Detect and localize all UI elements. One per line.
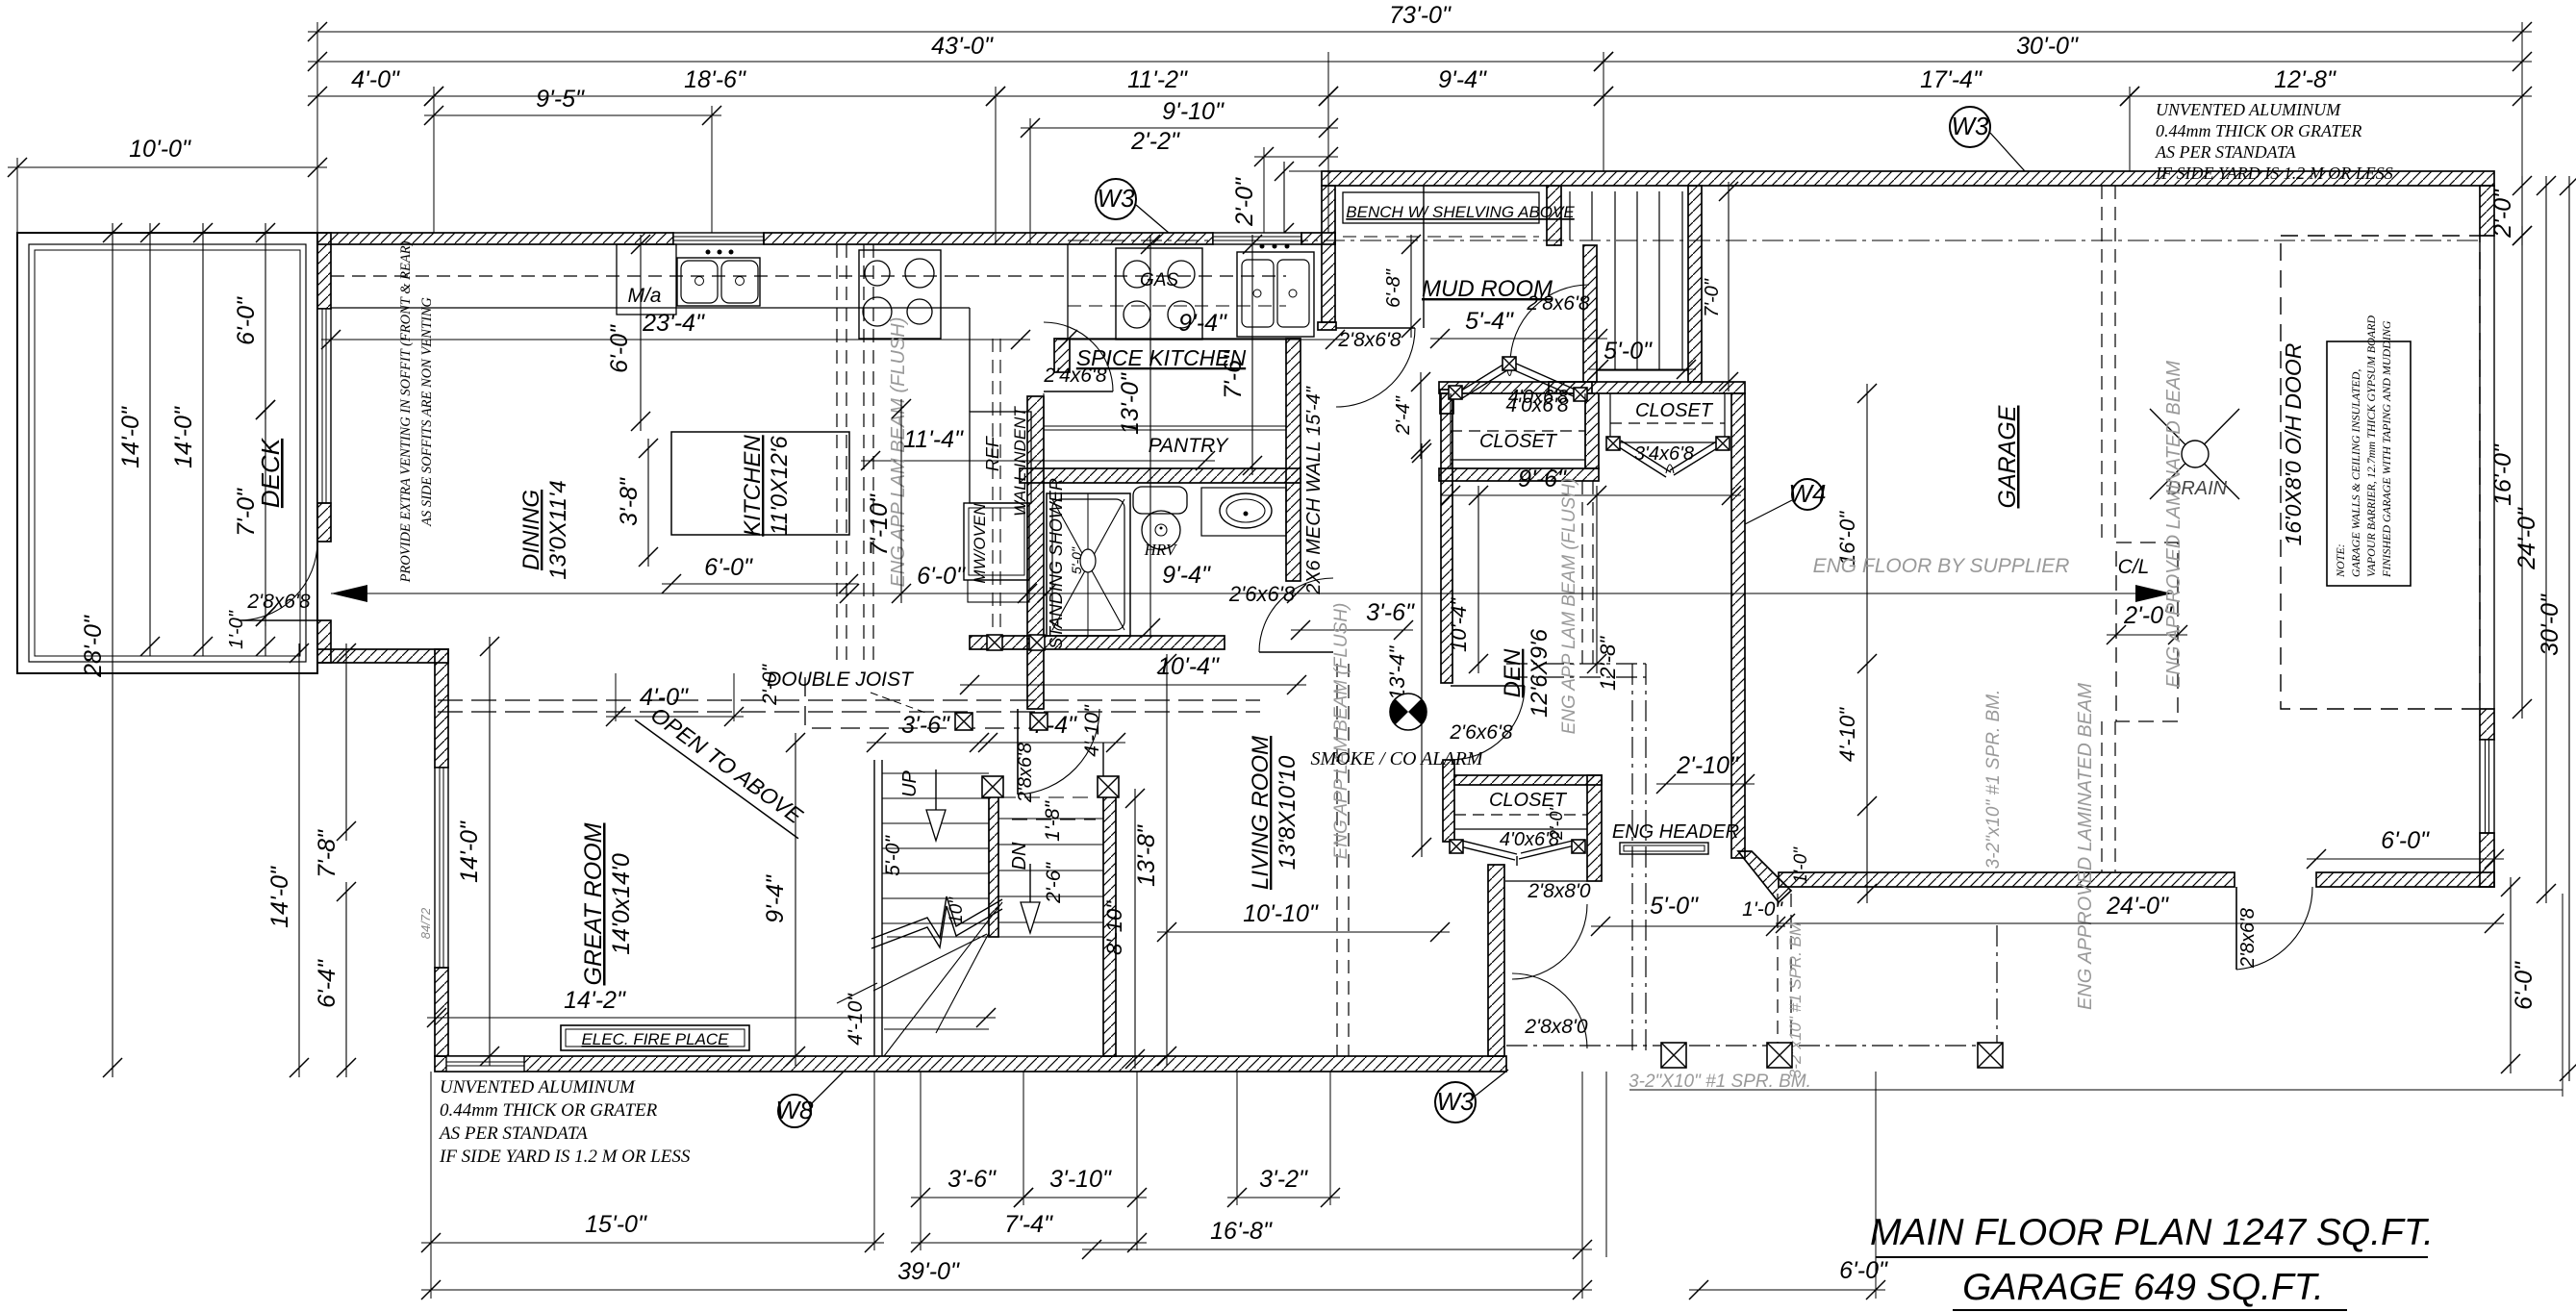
dim 4'-4" stair top bbox=[978, 712, 1125, 752]
svg-text:M/a: M/a bbox=[627, 285, 661, 307]
svg-text:2'-10": 2'-10" bbox=[1676, 752, 1739, 779]
W3 top right bbox=[1950, 107, 1990, 147]
dim 9'-5" bbox=[424, 86, 721, 125]
svg-text:2X6 MECH WALL 15'-4": 2X6 MECH WALL 15'-4" bbox=[1303, 386, 1325, 595]
hrv bbox=[1142, 511, 1180, 549]
svg-text:2'8x8'0: 2'8x8'0 bbox=[1524, 1016, 1588, 1038]
dim 13'-0" dining bbox=[1117, 235, 1160, 638]
dim 6'-0" bottom bbox=[1689, 1257, 1888, 1299]
svg-text:W3: W3 bbox=[1098, 184, 1136, 213]
svg-text:ENG APPROVED LAMINATED BEAM: ENG APPROVED LAMINATED BEAM bbox=[2075, 683, 2096, 1010]
dim 7'-10" bbox=[866, 399, 911, 603]
W4 circle bbox=[1789, 479, 1827, 510]
beam dashed hall bbox=[1337, 664, 1349, 1056]
door garage rear bbox=[2236, 887, 2312, 970]
svg-text:9'-4": 9'-4" bbox=[1438, 66, 1487, 93]
svg-text:CLOSET: CLOSET bbox=[1479, 431, 1558, 452]
door spice 2'4x6'8 bbox=[1044, 322, 1113, 391]
dim 14'-0" great room interior bbox=[456, 637, 499, 1066]
dim 9'-10" bbox=[1021, 98, 1338, 138]
window spice kitchen bbox=[1213, 233, 1301, 244]
wall garage right a bbox=[2480, 709, 2494, 740]
fireplace bbox=[561, 1025, 749, 1050]
beam dashdot line bbox=[1068, 240, 2480, 241]
dim 2'-0" right top bbox=[2489, 176, 2532, 245]
dim 11'-2" bbox=[986, 66, 1338, 106]
svg-text:14'-0": 14'-0" bbox=[266, 866, 293, 928]
svg-text:13'8X10'10: 13'8X10'10 bbox=[1275, 755, 1301, 870]
svg-text:SMOKE / CO ALARM: SMOKE / CO ALARM bbox=[1310, 748, 1483, 770]
svg-text:6'-0": 6'-0" bbox=[606, 324, 633, 373]
W8 bottom bbox=[776, 1095, 815, 1127]
svg-text:9'-5": 9'-5" bbox=[536, 86, 585, 113]
kitchen stove bbox=[859, 250, 941, 339]
svg-text:6'-0": 6'-0" bbox=[704, 554, 753, 581]
door hall bottom 2'8x8'0 bbox=[1512, 973, 1587, 1048]
svg-text:MAIN FLOOR PLAN 1247 SQ.FT.: MAIN FLOOR PLAN 1247 SQ.FT. bbox=[1870, 1212, 2434, 1253]
svg-text:CLOSET: CLOSET bbox=[1635, 400, 1714, 421]
svg-text:23'-4": 23'-4" bbox=[642, 310, 705, 337]
dim 16'-8" bottom bbox=[1082, 1218, 1592, 1259]
bench bbox=[1343, 192, 1539, 223]
door den 2'6x6'8 bbox=[1451, 686, 1525, 760]
dishwasher M/a bbox=[617, 244, 676, 315]
stair right wall bbox=[1103, 781, 1116, 1056]
svg-text:W3: W3 bbox=[1437, 1087, 1476, 1116]
wall hall below bath bbox=[1027, 639, 1044, 709]
porch dashed outline bbox=[1506, 925, 2001, 1046]
dim 3'-2" bottom bbox=[1227, 1166, 1340, 1207]
svg-text:FINISHED GARAGE WITH TAPING AN: FINISHED GARAGE WITH TAPING AND MUDDING bbox=[2380, 320, 2393, 578]
svg-text:7'-10": 7'-10" bbox=[866, 493, 893, 556]
deck outer rect bbox=[17, 233, 317, 673]
svg-text:2'-4": 2'-4" bbox=[1393, 395, 1414, 436]
svg-text:14'-0": 14'-0" bbox=[170, 406, 197, 468]
dim 2'-2" bbox=[1130, 128, 1338, 166]
dim 4'-0" bbox=[308, 66, 443, 106]
svg-text:ENG APP LAM BEAM (FLUSH): ENG APP LAM BEAM (FLUSH) bbox=[1331, 603, 1351, 860]
svg-text:GREAT ROOM: GREAT ROOM bbox=[580, 822, 607, 985]
svg-text:2'-0": 2'-0" bbox=[1231, 177, 1258, 227]
dim 13'-8" bbox=[1133, 654, 1176, 1066]
svg-text:DECK: DECK bbox=[256, 437, 285, 508]
svg-text:16'-0": 16'-0" bbox=[2489, 443, 2516, 506]
partition mudroom left bbox=[1423, 186, 1425, 328]
window kitchen sink bbox=[673, 233, 764, 244]
wall stair/mudroom bbox=[1547, 186, 1561, 245]
svg-text:5'-0": 5'-0" bbox=[1069, 546, 1084, 574]
svg-text:39'-0": 39'-0" bbox=[897, 1258, 960, 1285]
wall below dining bbox=[317, 649, 448, 663]
svg-text:3'-6": 3'-6" bbox=[1366, 599, 1415, 626]
kitchen sink bbox=[677, 250, 760, 307]
svg-text:STANDING SHOWER: STANDING SHOWER bbox=[1047, 478, 1066, 649]
dim 43'-0" bbox=[308, 33, 1613, 71]
svg-text:18'-6": 18'-6" bbox=[684, 66, 746, 93]
dim 6'-0" right bottom bbox=[2501, 877, 2538, 1073]
svg-text:14'-0": 14'-0" bbox=[456, 820, 483, 883]
svg-text:11'-2": 11'-2" bbox=[1127, 66, 1188, 93]
svg-text:2'-2": 2'-2" bbox=[1130, 128, 1180, 155]
wall den left lower bbox=[1443, 760, 1454, 842]
dim 15'-0" bottom bbox=[421, 1211, 884, 1252]
svg-text:BENCH W/ SHELVING ABOVE: BENCH W/ SHELVING ABOVE bbox=[1346, 203, 1575, 221]
svg-text:12'6X9'6: 12'6X9'6 bbox=[1527, 628, 1553, 718]
step dashed rect bbox=[2116, 542, 2178, 721]
svg-text:2'8x8'0: 2'8x8'0 bbox=[1527, 880, 1591, 902]
wall great room left upper bbox=[435, 649, 448, 768]
window deck tall bbox=[317, 309, 331, 503]
door mud stairs arc bbox=[1510, 285, 1589, 364]
svg-text:14'0x14'0: 14'0x14'0 bbox=[608, 853, 635, 955]
wall garage bottom a bbox=[1779, 872, 2235, 887]
svg-text:10'-0": 10'-0" bbox=[129, 136, 191, 163]
dim 6'-4" bbox=[314, 882, 356, 1077]
dim 4'-0" step bbox=[606, 684, 744, 726]
dim 5'-4" mud bbox=[1430, 308, 1607, 348]
svg-text:5'-0": 5'-0" bbox=[882, 835, 904, 876]
dim 1'-0" deck bbox=[226, 607, 275, 656]
wall diagonal porch-garage bbox=[1738, 851, 1791, 902]
W3 top left bbox=[1096, 179, 1136, 219]
svg-text:C/L: C/L bbox=[2118, 556, 2150, 578]
dim 13'-4" den left bbox=[1385, 443, 1431, 857]
stairs boundaries bbox=[874, 743, 1103, 1056]
wall spice counter stub bbox=[1054, 339, 1070, 372]
svg-text:KITCHEN: KITCHEN bbox=[740, 435, 766, 537]
svg-text:4'-0": 4'-0" bbox=[640, 684, 689, 711]
wall spice NE stub bbox=[1318, 322, 1336, 330]
svg-text:2'4x6'8: 2'4x6'8 bbox=[1043, 365, 1107, 387]
wall mud closet left bbox=[1440, 390, 1453, 414]
dim 7'-0" deck bbox=[233, 400, 275, 626]
window 84/72 great room bbox=[435, 768, 448, 968]
deck inner rect bbox=[29, 244, 306, 662]
door mudroom west 2'8x6'8 bbox=[1336, 328, 1415, 407]
svg-text:5'-4": 5'-4" bbox=[1465, 308, 1514, 335]
door deck 2'8x6'8 bbox=[239, 542, 317, 620]
beam dashed dining bbox=[837, 244, 873, 664]
dim 12'-8" den bbox=[1587, 486, 1620, 691]
spice dashed bbox=[1068, 305, 1286, 307]
window garage right bbox=[2480, 740, 2494, 833]
svg-text:W8: W8 bbox=[776, 1096, 815, 1124]
dim 14'-0" left upper a bbox=[117, 223, 160, 656]
dim 16'-0" garage left bbox=[1835, 384, 1877, 903]
dim 6'-0" deck bbox=[233, 223, 275, 419]
wall garage NE corner bbox=[2480, 186, 2494, 236]
wall den left upper bbox=[1441, 393, 1452, 683]
dim 18'-6" bbox=[424, 66, 1005, 106]
dim 14'-2" bbox=[427, 987, 996, 1027]
xpost porch a bbox=[1661, 1043, 1686, 1068]
pantry shelves bbox=[1044, 393, 1286, 430]
svg-text:4'0x6'8: 4'0x6'8 bbox=[1508, 387, 1568, 408]
svg-text:2'6x6'8: 2'6x6'8 bbox=[1449, 721, 1513, 744]
svg-text:DEN: DEN bbox=[1500, 648, 1526, 697]
svg-text:3'-6": 3'-6" bbox=[901, 712, 950, 739]
door hall/living 2'8x6'8 bbox=[1018, 709, 1099, 795]
svg-text:1'-0": 1'-0" bbox=[1791, 846, 1811, 884]
svg-text:14'-2": 14'-2" bbox=[564, 987, 626, 1014]
dim 2'-10" bbox=[1656, 752, 1755, 794]
svg-text:16'-8": 16'-8" bbox=[1210, 1218, 1273, 1245]
svg-text:12'-8": 12'-8" bbox=[2274, 66, 2336, 93]
svg-text:2'-0": 2'-0" bbox=[759, 664, 781, 706]
svg-text:73'-0": 73'-0" bbox=[1389, 2, 1452, 29]
svg-text:3-2"x10" #1 SPR. BM.: 3-2"x10" #1 SPR. BM. bbox=[1983, 690, 2004, 870]
wall stair right top bbox=[1688, 186, 1702, 382]
svg-text:2'-6": 2'-6" bbox=[1043, 862, 1065, 904]
dim 10'-4" bath bbox=[960, 653, 1306, 694]
svg-text:2'8x6'8: 2'8x6'8 bbox=[1526, 292, 1590, 315]
svg-text:6'-0": 6'-0" bbox=[2511, 961, 2538, 1010]
closet2 interior bbox=[1610, 393, 1725, 442]
dim 39'-0" bottom bbox=[421, 1258, 1592, 1299]
wall under top stairs bbox=[1549, 382, 1745, 393]
dim 9'-4" spice bbox=[1058, 310, 1345, 349]
wall bottom great room/living bbox=[435, 1056, 1506, 1072]
dim 30'-0" right bbox=[2537, 176, 2576, 1081]
wall great room left lower bbox=[435, 968, 448, 1056]
wall living room right bbox=[1488, 865, 1504, 1056]
svg-text:2'8x6'8: 2'8x6'8 bbox=[1337, 329, 1402, 351]
dim 24'-0" right bbox=[2513, 176, 2556, 903]
wall mech 2x6 bbox=[1286, 339, 1301, 581]
xpost hall a bbox=[955, 713, 972, 730]
closet2 bifold bbox=[1616, 441, 1722, 477]
svg-text:84/72: 84/72 bbox=[418, 907, 433, 939]
svg-text:7'-6": 7'-6" bbox=[1220, 350, 1247, 399]
dim 3'-6" bottom bbox=[911, 1166, 1033, 1207]
dim 2'-4" bbox=[1393, 372, 1430, 459]
dim 7'-8" bbox=[314, 643, 356, 878]
svg-text:6'-0": 6'-0" bbox=[917, 563, 966, 590]
svg-text:PANTRY: PANTRY bbox=[1149, 435, 1230, 457]
closet1 interior bbox=[1451, 393, 1585, 468]
dim 12'-8" bbox=[2120, 66, 2532, 106]
svg-text:AS PER STANDATA: AS PER STANDATA bbox=[438, 1123, 588, 1144]
counter dashed line bbox=[331, 275, 1286, 277]
svg-text:16'0X8'0 O/H DOOR: 16'0X8'0 O/H DOOR bbox=[2281, 343, 2306, 546]
wall below closet1 bbox=[1439, 468, 1599, 481]
dim 11'-4" bbox=[861, 426, 1215, 470]
wall left house mid bbox=[317, 503, 331, 542]
svg-text:9'-4": 9'-4" bbox=[1162, 562, 1211, 589]
svg-text:9'-10": 9'-10" bbox=[1162, 98, 1225, 125]
svg-text:GARAGE WALLS & CEILING INSULAT: GARAGE WALLS & CEILING INSULATED, bbox=[2349, 369, 2362, 577]
svg-text:IF SIDE YARD IS 1.2 M OR LESS: IF SIDE YARD IS 1.2 M OR LESS bbox=[2155, 164, 2393, 183]
dim 10'-0" deck bbox=[8, 136, 327, 177]
svg-text:4'-10": 4'-10" bbox=[1835, 707, 1859, 762]
mud closet bifold bbox=[1458, 363, 1579, 398]
svg-text:PROVIDE EXTRA VENTING IN SOFFI: PROVIDE EXTRA VENTING IN SOFFIT (FRONT &… bbox=[398, 240, 414, 583]
svg-text:2'-0": 2'-0" bbox=[1547, 803, 1566, 840]
dim 3'-6" stair top bbox=[867, 712, 989, 752]
dim 10'-10" bbox=[1157, 900, 1450, 942]
svg-text:6'-0": 6'-0" bbox=[2381, 827, 2430, 854]
dim 73'-0" overall top bbox=[308, 2, 2532, 41]
dim 14'-0" great room col bbox=[266, 643, 309, 1077]
svg-text:4'-10": 4'-10" bbox=[1081, 704, 1103, 757]
drain bbox=[2150, 409, 2239, 499]
wall living closet right bbox=[1587, 775, 1602, 881]
spice gas stove bbox=[1116, 248, 1202, 340]
dim 2'-0" step mudroom bbox=[1231, 162, 1294, 242]
svg-text:43'-0": 43'-0" bbox=[931, 33, 994, 60]
wall living closet top bbox=[1454, 775, 1602, 785]
arrow left bbox=[331, 585, 367, 602]
svg-text:HRV: HRV bbox=[1144, 541, 1178, 559]
living closet interior bbox=[1454, 815, 1587, 881]
mw/oven bbox=[964, 503, 1029, 580]
double joist dashed bbox=[438, 700, 1260, 712]
wall closet divider bbox=[1585, 393, 1599, 468]
toilet bbox=[1133, 487, 1187, 514]
UP arrow bbox=[935, 770, 937, 811]
stair center wall bbox=[989, 791, 998, 937]
dim 17'-4" bbox=[1594, 66, 2139, 106]
beam dashed porch bbox=[1778, 894, 1791, 1063]
wall closet1 top bbox=[1439, 382, 1592, 393]
dim 9'-6" den bbox=[1441, 466, 1741, 505]
svg-text:5'-0": 5'-0" bbox=[1650, 893, 1699, 920]
xpost stair b bbox=[1098, 776, 1119, 797]
extension lines top bbox=[17, 22, 2522, 244]
beam dashed den bbox=[1582, 481, 1593, 664]
svg-text:15'-0": 15'-0" bbox=[585, 1211, 647, 1238]
dim 9'-4" stairs left bbox=[762, 733, 805, 1066]
svg-text:REF: REF bbox=[983, 436, 1002, 471]
note box garage bbox=[2327, 341, 2411, 586]
svg-text:DOUBLE JOIST: DOUBLE JOIST bbox=[767, 669, 915, 691]
svg-text:AS PER STANDATA: AS PER STANDATA bbox=[2155, 142, 2297, 162]
svg-text:6'-0": 6'-0" bbox=[233, 296, 260, 345]
svg-text:7'-8": 7'-8" bbox=[314, 829, 341, 878]
dim 7'-0" garage side bbox=[1702, 182, 1738, 391]
arrow right bbox=[2135, 585, 2172, 602]
svg-text:13'-4": 13'-4" bbox=[1385, 645, 1409, 700]
ext line bottom right bbox=[1629, 1089, 2563, 1091]
wall garage right b bbox=[2480, 833, 2494, 887]
svg-text:4'-10": 4'-10" bbox=[845, 993, 867, 1046]
svg-text:10'-4": 10'-4" bbox=[1447, 597, 1471, 652]
svg-text:11'0X12'6: 11'0X12'6 bbox=[767, 436, 793, 536]
living closet bifold bbox=[1460, 840, 1577, 866]
dim 10'-4" den bbox=[1447, 486, 1488, 673]
stair stringer diagonals bbox=[837, 902, 1002, 1056]
dim 7'-6" spice bbox=[1220, 235, 1262, 475]
svg-text:30'-0": 30'-0" bbox=[2016, 33, 2079, 60]
svg-text:GARAGE 649 SQ.FT.: GARAGE 649 SQ.FT. bbox=[1962, 1267, 2324, 1308]
svg-text:5'-0": 5'-0" bbox=[1604, 338, 1653, 365]
svg-text:13'0X11'4: 13'0X11'4 bbox=[545, 480, 571, 579]
svg-text:GAS: GAS bbox=[1140, 270, 1178, 290]
svg-text:2'8x6'8: 2'8x6'8 bbox=[1015, 743, 1036, 803]
svg-text:7'-4": 7'-4" bbox=[1004, 1211, 1053, 1238]
svg-text:ENG APP LAM BEAM (FLUSH): ENG APP LAM BEAM (FLUSH) bbox=[1559, 478, 1579, 735]
wall top mud/garage bbox=[1322, 171, 2494, 186]
svg-text:11'-4": 11'-4" bbox=[903, 426, 964, 453]
hall dashed lines bbox=[1506, 664, 1646, 1056]
fridge REF bbox=[970, 412, 1031, 503]
stair treads bbox=[882, 773, 1103, 1029]
svg-text:ELEC. FIRE PLACE: ELEC. FIRE PLACE bbox=[581, 1030, 729, 1048]
svg-text:GARAGE: GARAGE bbox=[1994, 405, 2021, 508]
door hall top 2'8x8'0 bbox=[1512, 904, 1587, 979]
dim 5'-0" porch bbox=[1591, 893, 1785, 936]
dim 3'-6" den bbox=[1291, 599, 1415, 640]
dim 7'-4" bottom bbox=[911, 1211, 1147, 1252]
svg-text:13'-0": 13'-0" bbox=[1117, 372, 1144, 435]
smoke/co alarm symbol bbox=[1382, 686, 1434, 738]
svg-text:3-2"X10" #1 SPR. BM.: 3-2"X10" #1 SPR. BM. bbox=[1629, 1072, 1811, 1092]
svg-text:3'-8": 3'-8" bbox=[616, 477, 643, 526]
spice counter edge bbox=[1068, 338, 1301, 340]
svg-text:4'-0": 4'-0" bbox=[351, 66, 400, 93]
wall under pantry bbox=[1020, 468, 1301, 483]
svg-text:DN: DN bbox=[1009, 842, 1030, 870]
dim 6'-0" island bbox=[662, 554, 858, 593]
dim 28'-0" left bbox=[80, 223, 122, 1077]
svg-text:3'-6": 3'-6" bbox=[947, 1166, 997, 1193]
svg-text:UNVENTED ALUMINUM: UNVENTED ALUMINUM bbox=[2156, 100, 2341, 119]
wall mudroom left stub bbox=[1322, 186, 1335, 322]
svg-text:UP: UP bbox=[899, 770, 921, 796]
svg-text:28'-0": 28'-0" bbox=[80, 615, 107, 678]
svg-text:1'-0": 1'-0" bbox=[226, 610, 247, 649]
xpost porch b bbox=[1767, 1043, 1792, 1068]
xpost bath a bbox=[987, 635, 1002, 650]
svg-text:W4: W4 bbox=[1789, 479, 1827, 508]
svg-text:3'-10": 3'-10" bbox=[1049, 1166, 1112, 1193]
svg-text:14'-0": 14'-0" bbox=[117, 406, 144, 468]
stairs basement treads bbox=[1570, 191, 1688, 370]
svg-text:30'-0": 30'-0" bbox=[2537, 593, 2563, 656]
svg-text:2'8x6'8: 2'8x6'8 bbox=[2237, 908, 2259, 969]
counter edge kitchen bbox=[331, 307, 970, 309]
svg-text:9'-4": 9'-4" bbox=[1178, 310, 1227, 337]
wall garage bottom b bbox=[2316, 872, 2494, 887]
svg-text:NOTE:: NOTE: bbox=[2334, 543, 2347, 578]
door bath 2'6x6'8 bbox=[1259, 578, 1333, 652]
bottom extension lines bbox=[431, 1072, 1876, 1299]
svg-text:9'-4": 9'-4" bbox=[762, 874, 789, 923]
xpost stair a bbox=[982, 776, 1003, 797]
wall den right bbox=[1731, 393, 1745, 858]
wall left house lower bbox=[317, 620, 331, 663]
svg-text:ENG FLOOR BY SUPPLIER: ENG FLOOR BY SUPPLIER bbox=[1813, 555, 2070, 577]
dim 8'-10" bbox=[1102, 789, 1145, 1069]
wall left house upper bbox=[317, 233, 331, 309]
spice sink bbox=[1237, 244, 1314, 338]
wall top-left c bbox=[1301, 233, 1335, 244]
svg-text:DINING: DINING bbox=[518, 490, 544, 570]
wall bath bottom bbox=[970, 636, 1225, 649]
dim 3'-8" bbox=[616, 439, 658, 567]
svg-text:24'-0": 24'-0" bbox=[2513, 507, 2540, 570]
dim 6'-8" mud bbox=[1383, 235, 1421, 338]
svg-text:0.44mm THICK OR GRATER: 0.44mm THICK OR GRATER bbox=[440, 1100, 658, 1121]
wall top-left a bbox=[317, 233, 673, 244]
dim 16'-0" right bbox=[2489, 226, 2532, 719]
svg-text:ENG HEADER: ENG HEADER bbox=[1612, 821, 1739, 843]
eng header bar bbox=[1620, 843, 1708, 854]
svg-text:10": 10" bbox=[947, 896, 967, 924]
stair break zigzag bbox=[871, 896, 1002, 948]
xpost porch c bbox=[1978, 1043, 2003, 1068]
svg-text:24'-0": 24'-0" bbox=[2106, 893, 2169, 920]
